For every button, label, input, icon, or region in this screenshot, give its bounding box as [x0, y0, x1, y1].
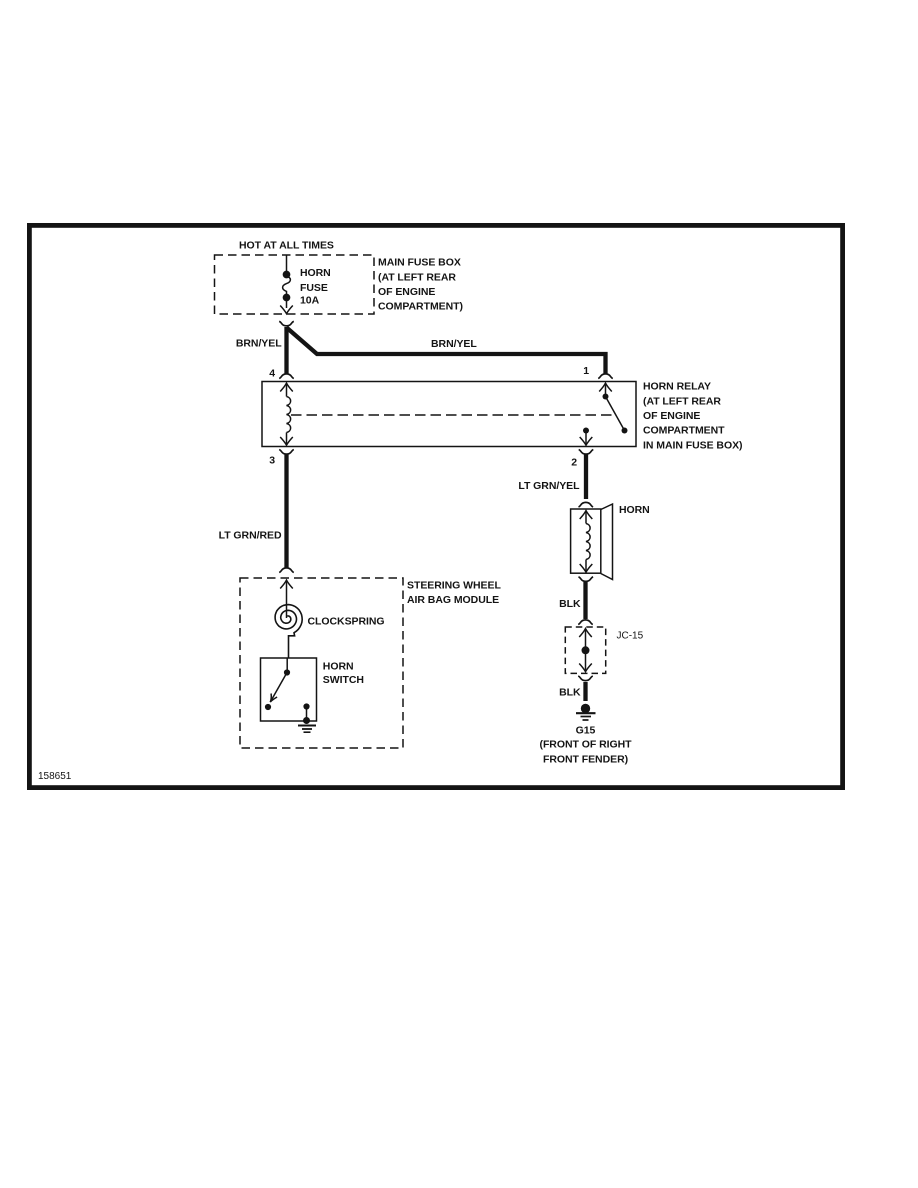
svg-text:3: 3	[269, 455, 275, 467]
JC-15 junction	[579, 629, 592, 672]
relay internal dashed line	[291, 414, 612, 416]
horn coil	[580, 511, 593, 573]
connector above JC-15	[578, 620, 593, 625]
svg-text:158651: 158651	[38, 771, 72, 782]
svg-text:HORN: HORN	[300, 267, 331, 279]
relay coil	[280, 383, 293, 445]
JC-15 junction box (dashed)	[565, 627, 605, 673]
connector below horn	[579, 577, 594, 582]
svg-text:STEERING WHEEL: STEERING WHEEL	[407, 580, 501, 592]
label MAIN FUSE BOX (AT LEFT REAR OF ENGINE COMPARTMENT)	[378, 257, 463, 313]
svg-text:HORN RELAY: HORN RELAY	[643, 381, 711, 393]
svg-text:SWITCH: SWITCH	[323, 674, 364, 686]
wire LT GRN/YEL to horn	[584, 455, 588, 500]
connector above horn	[579, 502, 594, 507]
svg-text:BRN/YEL: BRN/YEL	[236, 338, 282, 350]
horn relay box	[262, 382, 636, 447]
wire branch diagonal and horizontal BRN/YEL run to pin 1	[287, 328, 606, 374]
wire LT GRN/RED to air bag module	[284, 455, 288, 569]
steering wheel air bag module box (dashed)	[240, 578, 403, 748]
horn switch box	[261, 658, 317, 721]
svg-text:COMPARTMENT): COMPARTMENT)	[378, 301, 463, 313]
svg-text:1: 1	[583, 365, 589, 377]
svg-text:(FRONT OF RIGHT: (FRONT OF RIGHT	[540, 739, 633, 751]
arrow into module	[280, 580, 293, 604]
svg-text:MAIN FUSE BOX: MAIN FUSE BOX	[378, 257, 461, 269]
svg-text:G15: G15	[576, 724, 596, 736]
pin 1 connector	[598, 374, 613, 379]
main fuse box (dashed)	[215, 255, 375, 314]
relay switch	[580, 383, 628, 445]
clockspring spiral	[275, 605, 302, 658]
connector above air bag module	[279, 568, 294, 573]
label HORN RELAY (AT LEFT REAR OF ENGINE COMPARTMENT IN MAIN FUSE BOX)	[643, 381, 743, 452]
pin 3 connector	[279, 450, 294, 455]
fuse HORN FUSE 10A	[280, 255, 293, 314]
svg-text:OF ENGINE: OF ENGINE	[378, 286, 435, 298]
svg-text:HOT AT ALL TIMES: HOT AT ALL TIMES	[239, 240, 334, 252]
wire BLK horn to JC-15	[583, 581, 587, 619]
ground below horn switch	[298, 726, 316, 733]
svg-text:OF ENGINE: OF ENGINE	[643, 410, 700, 422]
label HORN SWITCH	[323, 661, 364, 686]
label STEERING WHEEL AIR BAG MODULE	[407, 580, 501, 607]
label G15 (FRONT OF RIGHT FRONT FENDER)	[540, 724, 633, 765]
svg-text:LT GRN/RED: LT GRN/RED	[219, 530, 282, 542]
svg-text:FUSE: FUSE	[300, 282, 328, 294]
border frame	[29, 225, 842, 787]
svg-text:AIR BAG MODULE: AIR BAG MODULE	[407, 594, 499, 606]
svg-text:HORN: HORN	[619, 504, 650, 516]
connector below fuse box	[279, 321, 294, 326]
svg-text:FRONT FENDER): FRONT FENDER)	[543, 753, 628, 765]
svg-text:IN MAIN FUSE BOX): IN MAIN FUSE BOX)	[643, 439, 743, 451]
svg-text:4: 4	[269, 368, 275, 380]
wire BRN/YEL vertical to pin 4	[284, 327, 288, 374]
svg-text:2: 2	[571, 457, 577, 469]
svg-text:LT GRN/YEL: LT GRN/YEL	[518, 480, 580, 492]
svg-text:BLK: BLK	[559, 687, 581, 699]
svg-text:10A: 10A	[300, 295, 320, 307]
svg-text:(AT LEFT REAR: (AT LEFT REAR	[643, 395, 721, 407]
svg-text:JC-15: JC-15	[617, 631, 644, 642]
label HORN FUSE 10A	[300, 267, 331, 307]
svg-text:BLK: BLK	[559, 598, 581, 610]
svg-text:(AT LEFT REAR: (AT LEFT REAR	[378, 271, 456, 283]
svg-text:COMPARTMENT: COMPARTMENT	[643, 425, 725, 437]
pin 4 connector	[279, 374, 294, 379]
ground G15	[576, 704, 596, 720]
connector below JC-15	[578, 676, 593, 681]
svg-text:CLOCKSPRING: CLOCKSPRING	[308, 616, 385, 628]
horn switch contacts	[265, 658, 310, 724]
clockspring entry wire	[286, 604, 288, 618]
pin 2 connector	[579, 450, 594, 455]
svg-text:HORN: HORN	[323, 661, 354, 673]
horn component	[571, 504, 613, 580]
wire BLK to ground	[583, 682, 587, 701]
svg-text:BRN/YEL: BRN/YEL	[431, 338, 477, 350]
